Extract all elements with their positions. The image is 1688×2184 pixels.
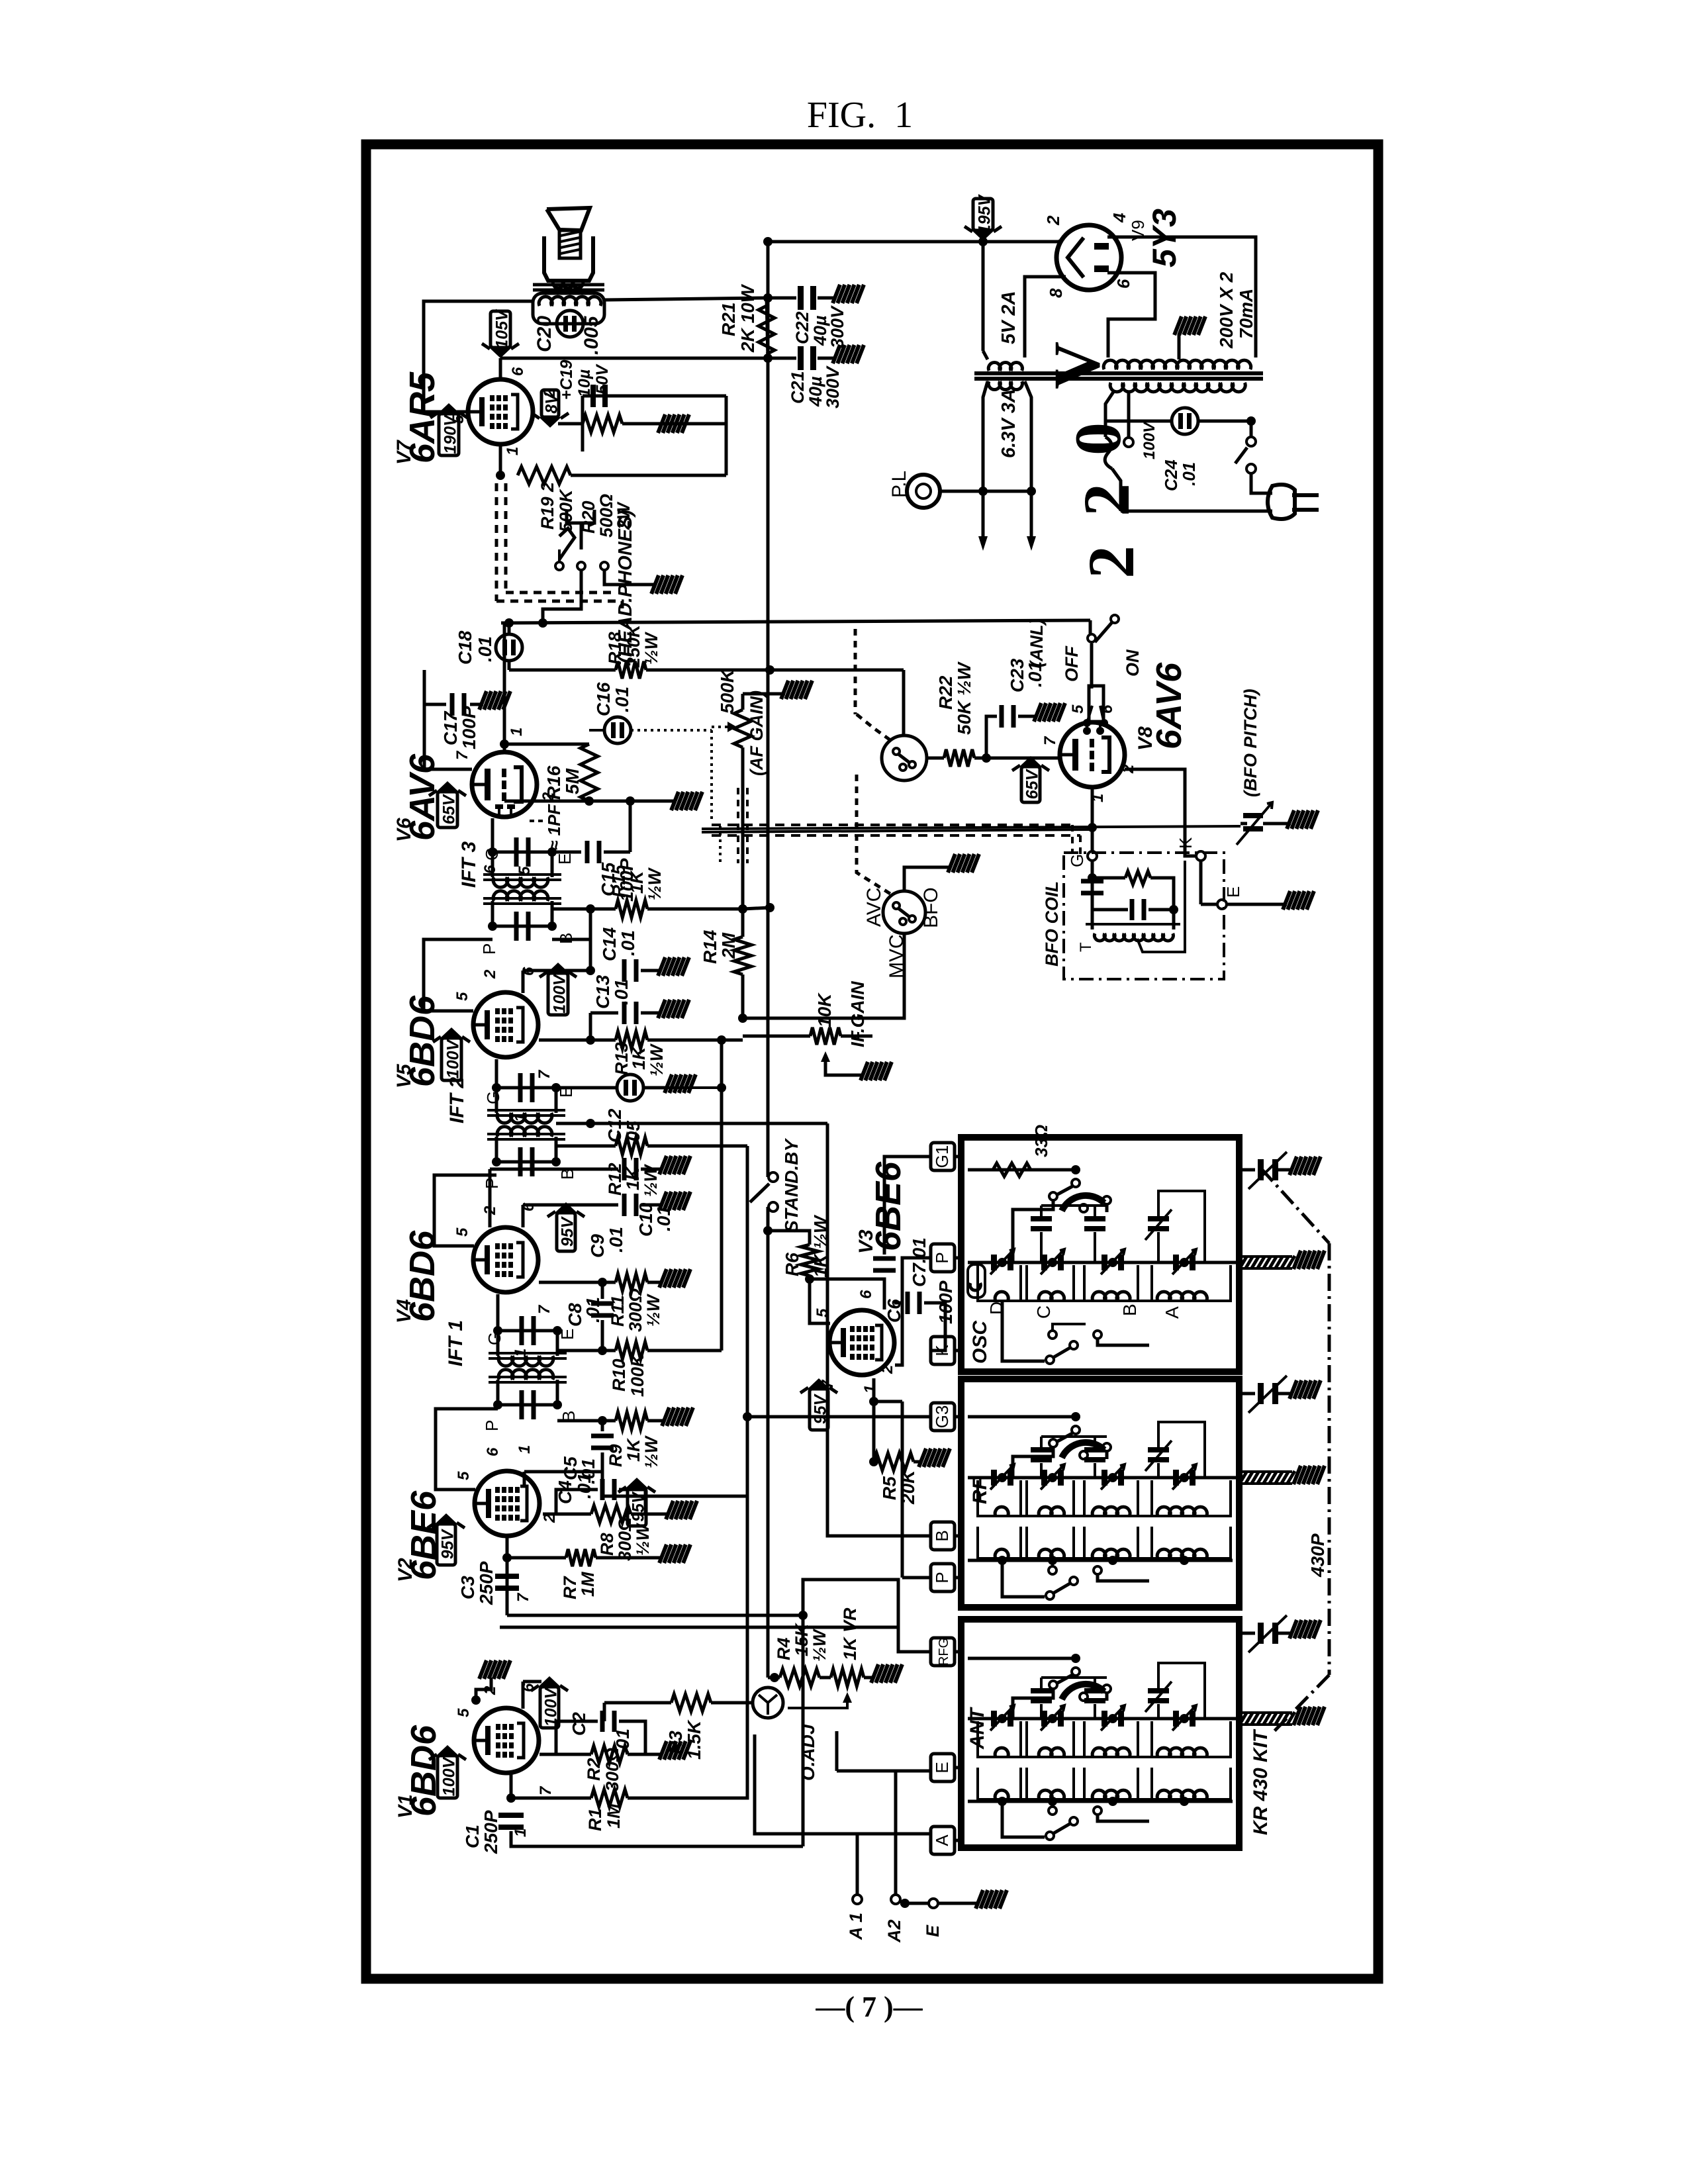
svg-text:½W: ½W [645, 867, 665, 900]
svg-text:6: 6 [484, 1447, 502, 1456]
svg-text:T: T [1077, 942, 1095, 952]
terminal RFG [931, 1638, 955, 1666]
svg-text:C1: C1 [462, 1825, 483, 1848]
svg-text:G: G [485, 1332, 504, 1345]
svg-text:6: 6 [509, 367, 527, 376]
svg-text:C14: C14 [599, 927, 620, 961]
svg-text:100P: 100P [459, 706, 479, 749]
svg-text:95V: 95V [559, 1215, 577, 1247]
power transformer 5V winding [988, 362, 1022, 371]
svg-text:C18: C18 [455, 630, 475, 665]
wire IFT2 P to V4 plate [434, 1175, 496, 1246]
BFO coil internals [1088, 851, 1097, 861]
wire B+ bus vertical [767, 242, 770, 1177]
svg-text:7: 7 [536, 1069, 553, 1079]
svg-text:R1: R1 [585, 1808, 605, 1831]
svg-text:195V: 195V [976, 193, 994, 234]
capacitor C12 .05 feedthrough [556, 1086, 617, 1090]
svg-text:A: A [1162, 1306, 1182, 1319]
svg-text:10µ: 10µ [575, 369, 594, 397]
svg-text:(ANL): (ANL) [1027, 619, 1047, 667]
svg-text:1: 1 [504, 447, 522, 455]
wire riser x1129 [746, 1146, 749, 1496]
svg-text:R6: R6 [782, 1253, 802, 1276]
wire 105V screen line [500, 357, 767, 360]
svg-text:R18: R18 [605, 632, 625, 665]
svg-text:RF: RF [969, 1477, 991, 1504]
wire RF line to V1 grid [500, 1626, 898, 1629]
svg-text:7: 7 [453, 750, 471, 760]
svg-text:.01: .01 [1179, 462, 1199, 486]
headphone jack [567, 510, 594, 523]
AVC dashed bus [712, 824, 1072, 826]
wire P osc feed [895, 1258, 931, 1365]
wire C15 junction [629, 801, 632, 852]
voltage label 95V for V3 [810, 1389, 828, 1430]
svg-text:190V: 190V [442, 414, 460, 454]
voltage label 65V for V6 [438, 792, 457, 828]
svg-text:100V: 100V [551, 973, 569, 1014]
voltage label 95V for V2 [437, 1524, 455, 1565]
wire audio line to ANL switch [501, 620, 1090, 623]
shield ground V1 [471, 1695, 481, 1705]
resistor R15 1K [552, 908, 590, 911]
svg-text:6: 6 [1113, 279, 1133, 289]
svg-text:E: E [557, 1329, 577, 1340]
wiper arrow AF pot [712, 726, 737, 728]
capacitor C16 .01 [589, 729, 604, 732]
wire 195V to 5V winding [982, 242, 985, 351]
wire primary bottom to plug [1121, 510, 1272, 513]
svg-text:C13: C13 [592, 974, 613, 1009]
dotted coupling to AF gain [631, 729, 712, 732]
resistor R22 50K [927, 757, 944, 760]
wire E extension [835, 1731, 839, 1771]
svg-text:G3: G3 [932, 1405, 952, 1429]
wire OPT left to V7 plate [424, 301, 533, 412]
svg-text:300V: 300V [827, 305, 847, 348]
voltage label 190V [439, 414, 459, 455]
svg-text:7: 7 [537, 1785, 555, 1795]
svg-text:500K: 500K [717, 668, 737, 714]
voltage label 105V [491, 311, 510, 348]
svg-text:(BFO PITCH): (BFO PITCH) [1241, 689, 1260, 797]
resistor R5 20K [872, 1401, 876, 1462]
resistor 33ohm [993, 1163, 1031, 1176]
wire K to E [1199, 861, 1203, 904]
svg-text:.005: .005 [581, 315, 602, 355]
svg-text:65V: 65V [440, 793, 459, 824]
ground for jack [651, 575, 659, 594]
capacitor C1 250P [498, 1813, 524, 1818]
screen line V5 [522, 971, 525, 993]
svg-text:6AV6: 6AV6 [1149, 662, 1189, 749]
resistor R21 2K 10W [759, 306, 774, 354]
antenna terminals A1 A2 E [853, 1895, 862, 1904]
svg-text:E: E [1223, 886, 1243, 898]
svg-text:250P: 250P [481, 1810, 501, 1854]
resistor R20 500ohm 2W [583, 415, 622, 432]
heater supply lines [940, 490, 1031, 493]
capacitor C15 100P [552, 851, 581, 854]
svg-text:(AF GAIN): (AF GAIN) [747, 690, 767, 776]
power transformer HV secondary [1103, 360, 1250, 369]
resistor R14 2M [741, 863, 745, 937]
ground for AF pot [781, 681, 788, 699]
capacitor C6 100P [894, 1302, 903, 1305]
tube V4 6BD6 [473, 1227, 538, 1292]
svg-text:E: E [932, 1762, 952, 1773]
wire K feed [931, 1349, 945, 1353]
svg-text:5M: 5M [562, 768, 583, 794]
svg-text:105V: 105V [493, 309, 512, 349]
svg-text:B: B [1119, 1304, 1140, 1316]
gang dash-dot linkage [1261, 1168, 1329, 1243]
svg-text:6: 6 [1098, 704, 1116, 714]
svg-text:R16: R16 [543, 765, 564, 800]
capacitor C21 40u 300V [768, 357, 796, 360]
svg-text:IFT 1: IFT 1 [445, 1320, 467, 1366]
voltage label 195V [973, 199, 993, 230]
terminal B [931, 1522, 955, 1550]
capacitor C14 .01 [622, 959, 627, 982]
svg-text:33Ω: 33Ω [1031, 1125, 1051, 1157]
resistor R9 1K [557, 1419, 616, 1423]
tube V8 6AV6 [1060, 722, 1125, 787]
svg-text:.01: .01 [606, 1227, 626, 1253]
power switch [1250, 421, 1253, 437]
svg-text:R19 2: R19 2 [538, 482, 557, 530]
trimmer to ground at OSC box [1239, 1168, 1255, 1172]
svg-text:5: 5 [455, 1708, 473, 1717]
wire IFT3 G to V6 diodes [491, 818, 494, 852]
wire OPT right to B+ node [604, 298, 767, 300]
tube V9 5Y3 rectifier [1056, 225, 1121, 290]
svg-text:AVC: AVC [863, 888, 885, 927]
svg-text:7: 7 [536, 1304, 553, 1314]
capacitor C20 .005 [557, 310, 583, 337]
terminal P osc [931, 1244, 955, 1272]
svg-text:OSC: OSC [969, 1320, 991, 1364]
wire MVC to R14 line [743, 933, 904, 1018]
wire IFT1 G to V4 [496, 1294, 500, 1331]
ground for R20 [658, 414, 665, 433]
svg-text:6BD6: 6BD6 [402, 1230, 442, 1322]
wire 5Y3 plate pin6 to HV winding [1107, 273, 1155, 357]
svg-text:C: C [1033, 1306, 1054, 1319]
dashed wires to headphone jack [495, 483, 498, 601]
svg-text:P: P [482, 1178, 502, 1189]
svg-text:RFG: RFG [937, 1638, 951, 1666]
svg-text:50K ½W: 50K ½W [954, 661, 974, 735]
svg-text:R21: R21 [718, 303, 739, 336]
wire 5Y3 pin8 to 5V winding [1025, 277, 1066, 357]
ground for AVC switch [904, 867, 951, 891]
svg-text:100V: 100V [444, 1038, 463, 1078]
wire R6 to V3 pins [810, 1279, 884, 1309]
svg-text:½W: ½W [641, 1435, 661, 1468]
wire R18 line to ANL switch [902, 670, 906, 735]
svg-text:G: G [1067, 854, 1087, 867]
svg-text:.01: .01 [583, 1297, 603, 1323]
svg-text:A2: A2 [884, 1919, 904, 1943]
wire E feed [837, 1770, 931, 1773]
svg-text:C21: C21 [788, 371, 808, 404]
resistor R7 1M and C3 250P [506, 1536, 509, 1615]
svg-text:½W: ½W [810, 1628, 829, 1662]
resistor R13 1K [539, 1039, 590, 1042]
dashed gang ANL-AVC [857, 714, 890, 740]
terminal A [931, 1827, 955, 1854]
svg-text:C22: C22 [792, 311, 812, 344]
terminal G1 [931, 1143, 955, 1170]
wire V1 grid bottom [510, 1773, 513, 1798]
svg-text:R4: R4 [774, 1637, 794, 1660]
svg-text:C20: C20 [534, 316, 555, 352]
svg-text:IFT 3: IFT 3 [458, 841, 480, 888]
wire 5Y3 plate pin4 to HV winding [1107, 237, 1256, 357]
svg-text:250K: 250K [624, 623, 643, 668]
100V tap [1127, 392, 1131, 437]
svg-text:E: E [923, 1924, 943, 1937]
svg-text:100P: 100P [935, 1280, 956, 1324]
IF GAIN pot 10K [743, 1035, 810, 1038]
small coupling loop e [968, 1264, 985, 1298]
BFO coil box dashed [1064, 853, 1224, 979]
svg-text:R5: R5 [879, 1476, 900, 1500]
wire IFT3 P to V5 plate [424, 939, 492, 1011]
svg-text:P: P [932, 1572, 952, 1583]
svg-text:1K: 1K [627, 869, 647, 894]
svg-text:STAND.BY: STAND.BY [781, 1138, 802, 1233]
svg-text:C12: C12 [604, 1108, 625, 1143]
svg-text:1: 1 [516, 1445, 534, 1454]
primary left lead [1105, 392, 1113, 421]
svg-text:BFO COIL: BFO COIL [1042, 881, 1062, 967]
svg-text:½W: ½W [633, 1522, 653, 1556]
wire IFT3 B down [552, 909, 590, 939]
svg-text:300Ω: 300Ω [602, 1748, 622, 1791]
wire G1 feed [884, 1157, 931, 1170]
wire B feed [827, 1123, 931, 1536]
capacitor C2 .01 and resistor R2 300 [543, 1753, 591, 1756]
svg-text:D: D [986, 1302, 1007, 1315]
speaker LS [547, 208, 590, 230]
svg-text:R2: R2 [584, 1758, 604, 1781]
IF transformer IFT1 [498, 1331, 557, 1356]
terminal E [931, 1754, 955, 1781]
AVC solid pair [702, 826, 1241, 829]
resistor R10 100K [557, 1349, 616, 1353]
svg-text:1K: 1K [624, 1437, 643, 1462]
pilot lamp PL [907, 475, 940, 508]
svg-text:E: E [555, 853, 575, 865]
wire screen bus to IFT2 [556, 1122, 827, 1125]
switch STAND.BY [769, 1172, 778, 1182]
tube V3 6BE6 [829, 1310, 894, 1375]
tube V6 6AV6 [472, 752, 537, 817]
output transformer T2 secondary [533, 293, 604, 324]
power transformer primary winding [1110, 383, 1245, 392]
tube V7 6AR5 [468, 379, 533, 444]
resistor R4 15K and 1K VR [770, 1673, 779, 1682]
svg-text:R11: R11 [608, 1295, 628, 1327]
svg-text:2: 2 [1070, 483, 1143, 516]
resistor R6 1K [763, 1226, 773, 1235]
svg-text:C9: C9 [587, 1234, 608, 1258]
svg-text:8: 8 [1046, 288, 1066, 298]
voltage label 100V for V1 [438, 1756, 457, 1798]
svg-text:6: 6 [857, 1290, 875, 1299]
svg-text:1: 1 [508, 728, 526, 736]
switch ANL on-off [1089, 620, 1092, 634]
svg-text:IFT 2: IFT 2 [446, 1077, 468, 1123]
resistor R12 1K [556, 1145, 616, 1148]
svg-text:6.3V 3A: 6.3V 3A [998, 389, 1019, 458]
svg-text:95V: 95V [439, 1528, 457, 1559]
ground for E terminal [976, 1890, 983, 1909]
svg-text:.01: .01 [574, 1473, 594, 1499]
svg-text:P.L: P.L [888, 471, 910, 498]
wire 5Y3 pin2 to bus [1058, 240, 1062, 242]
svg-text:10K: 10K [814, 992, 835, 1027]
svg-text:.01: .01 [612, 687, 632, 712]
svg-text:300Ω: 300Ω [626, 1288, 645, 1332]
resistor R18 250K [509, 669, 616, 672]
svg-text:R10: R10 [609, 1358, 629, 1392]
tube V2 6BE6 [475, 1471, 539, 1536]
voltage label 100V for V1 screen [540, 1687, 559, 1728]
svg-text:5: 5 [455, 1471, 473, 1480]
coil box ANT [961, 1619, 1239, 1848]
dashed risers to BFO coil [1071, 825, 1074, 854]
svg-text:½W: ½W [647, 1043, 667, 1076]
svg-text:A: A [932, 1834, 952, 1846]
wire V8 grid down [1091, 788, 1094, 851]
svg-text:430P: 430P [1307, 1533, 1328, 1578]
voltage label 95V for V4 [557, 1213, 575, 1251]
tube V1 6BD6 [474, 1708, 539, 1773]
capacitor C18 .01 feedthrough [496, 634, 522, 661]
svg-text:2: 2 [1074, 546, 1148, 579]
ground for C17 [479, 691, 487, 710]
svg-text:K: K [1176, 837, 1196, 849]
svg-text:C4: C4 [555, 1480, 575, 1504]
svg-text:≈ 1PF: ≈ 1PF [544, 804, 564, 850]
svg-text:OFF: OFF [1062, 645, 1082, 682]
capacitor C24 .01 [1105, 420, 1172, 423]
potentiometer 500K AF GAIN [741, 694, 745, 710]
IF transformer IFT2 [496, 1088, 556, 1113]
wire top B+ bus horizontal [768, 240, 1058, 244]
voltage label 65V for V8 [1021, 767, 1040, 802]
wire V3 plate node [874, 1378, 902, 1401]
capacitor C13 .01 [590, 1012, 618, 1015]
svg-text:7: 7 [514, 1592, 532, 1602]
svg-text:300V: 300V [823, 365, 843, 408]
voltage label 100V mid [548, 973, 568, 1015]
svg-text:½W: ½W [641, 631, 661, 665]
wire V1 screen [522, 1682, 525, 1709]
svg-text:P: P [482, 1420, 502, 1431]
IF transformer IFT3 [492, 852, 552, 877]
svg-text:R7: R7 [560, 1576, 580, 1599]
trimmer to ground at ANT box [1239, 1632, 1255, 1635]
wire V1 cathode [539, 1753, 543, 1756]
voltage label 8V [541, 390, 559, 417]
svg-text:1.5K: 1.5K [684, 1719, 704, 1760]
svg-text:100V: 100V [1141, 421, 1158, 459]
svg-text:5: 5 [1069, 704, 1087, 714]
svg-text:5V 2A: 5V 2A [998, 291, 1019, 344]
svg-text:6: 6 [481, 865, 499, 874]
voltage label 95V for V2 screen [628, 1488, 646, 1526]
svg-text:BFO: BFO [920, 887, 942, 928]
svg-text:O.ADJ: O.ADJ [798, 1723, 818, 1781]
svg-text:.01: .01 [618, 930, 638, 956]
svg-text:250P: 250P [476, 1561, 496, 1605]
wire IFT1 P to V2 [436, 1409, 498, 1490]
resistor R1 1M [511, 1797, 591, 1800]
svg-text:2: 2 [878, 1364, 896, 1374]
capacitor C8 .01 [601, 1282, 604, 1299]
svg-text:1K VR: 1K VR [840, 1607, 860, 1660]
svg-text:½W: ½W [643, 1293, 663, 1327]
wire bus x1160 to C21/C22 [767, 298, 768, 358]
capacitor C7 .01 [883, 1170, 886, 1255]
svg-text:4: 4 [1109, 213, 1129, 223]
terminal G3 [931, 1403, 955, 1431]
coil box OSC [961, 1137, 1239, 1372]
O.ADJ jack [753, 1687, 783, 1718]
resistor R19 500K [499, 444, 502, 475]
svg-text:R14: R14 [700, 929, 720, 964]
wire V8 plate to BFO coil [1125, 769, 1196, 856]
svg-text:0: 0 [1061, 422, 1135, 455]
svg-text:5: 5 [453, 992, 471, 1001]
ground for diode line [671, 792, 679, 810]
wire IFT2 G to V5 [495, 1059, 498, 1088]
wire V2 screen run [601, 1472, 604, 1496]
svg-text:IF.GAIN: IF.GAIN [847, 981, 868, 1047]
output transformer T2 core [533, 283, 604, 287]
voltage label 100V for V5 [442, 1038, 461, 1080]
svg-text:R8: R8 [597, 1533, 617, 1556]
resistor R11 300ohm [539, 1281, 616, 1284]
svg-text:100K: 100K [628, 1353, 647, 1397]
power transformer 6.3V winding [988, 381, 1022, 390]
resistor R3 1.5K [604, 1701, 671, 1705]
BFO pitch trimmer [1241, 822, 1247, 826]
svg-text:KR 430 KIT: KR 430 KIT [1250, 1729, 1272, 1835]
mains plug [1268, 485, 1295, 519]
svg-text:2M: 2M [718, 932, 739, 959]
terminal P rf [931, 1564, 955, 1591]
svg-text:2: 2 [1043, 215, 1063, 226]
svg-text:C16: C16 [593, 682, 614, 716]
svg-text:P: P [932, 1252, 952, 1263]
svg-text:R3: R3 [665, 1731, 686, 1754]
svg-text:100V: 100V [440, 1756, 459, 1796]
svg-text:7: 7 [1041, 736, 1059, 745]
wire P2 riser [901, 1401, 904, 1578]
svg-text:G: G [483, 1091, 503, 1104]
svg-text:2K 10W: 2K 10W [737, 283, 758, 353]
switch circle ANL [882, 736, 927, 781]
border frame [366, 144, 1378, 1979]
svg-text:1: 1 [861, 1385, 879, 1394]
svg-text:6BE6: 6BE6 [868, 1161, 908, 1251]
